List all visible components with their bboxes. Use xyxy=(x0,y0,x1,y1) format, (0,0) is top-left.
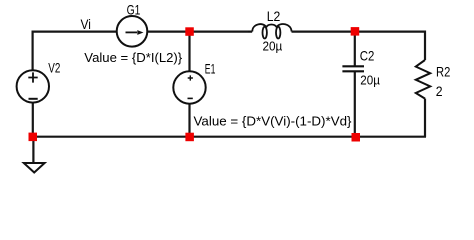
svg-text:C2: C2 xyxy=(360,49,375,64)
svg-text:2: 2 xyxy=(436,84,443,99)
svg-text:L2: L2 xyxy=(267,9,281,24)
svg-text:E1: E1 xyxy=(205,61,216,76)
svg-text:G1: G1 xyxy=(127,3,141,18)
svg-text:20µ: 20µ xyxy=(263,39,283,53)
svg-text:20µ: 20µ xyxy=(360,74,380,88)
svg-text:R2: R2 xyxy=(436,64,450,79)
svg-text:V2: V2 xyxy=(48,60,60,75)
svg-text:Value = {D*V(Vi)-(1-D)*Vd}: Value = {D*V(Vi)-(1-D)*Vd} xyxy=(194,113,353,128)
svg-text:Vi: Vi xyxy=(81,16,91,32)
svg-text:Value = {D*I(L2)}: Value = {D*I(L2)} xyxy=(84,50,183,65)
